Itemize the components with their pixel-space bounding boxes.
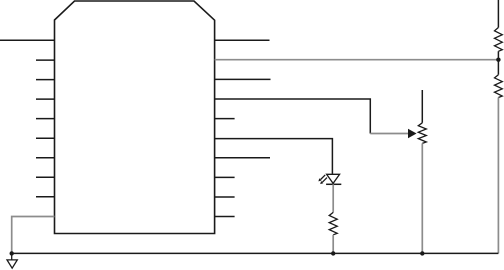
wire pin L9 to ground bbox=[12, 217, 55, 254]
resistor R2 bbox=[495, 75, 503, 98]
wire pin L4 bbox=[36, 118, 55, 120]
wire wiper horizontal bbox=[370, 133, 408, 135]
LED emission arrow 1 bbox=[321, 175, 326, 180]
LED cathode bar bbox=[326, 183, 341, 185]
wire pin R6 bbox=[215, 157, 270, 159]
wire pin L0 bbox=[0, 39, 55, 41]
wire pin L7 bbox=[36, 176, 55, 178]
wire pot to rail bbox=[421, 143, 423, 253]
wire pin L5 bbox=[36, 137, 55, 139]
wire pin R4 bbox=[215, 118, 235, 120]
resistor R3 bbox=[329, 212, 337, 234]
wire pin L1 bbox=[36, 59, 55, 61]
wiper arrowhead bbox=[408, 129, 417, 138]
wire pin R0 bbox=[215, 39, 270, 41]
wire pin L2 bbox=[36, 79, 55, 81]
wire pin R5 to LED bbox=[215, 139, 333, 174]
resistor R1 bbox=[495, 28, 503, 52]
op-amp U1 bbox=[55, 1, 215, 234]
wire node to R2 bbox=[497, 60, 499, 75]
wire pot top stub bbox=[421, 90, 423, 123]
wire pin R7 bbox=[215, 176, 235, 178]
wire R1 to node bbox=[497, 51, 499, 59]
wire LED to R3 bbox=[332, 184, 334, 212]
wire R2 to rail bbox=[497, 98, 499, 254]
wire pin L3 bbox=[36, 98, 55, 100]
wire pin R9 bbox=[215, 216, 235, 218]
wire ground rail bbox=[12, 252, 499, 254]
wire pin R2 bbox=[215, 78, 271, 80]
LED D1 bbox=[327, 174, 340, 183]
wire pin R8 bbox=[215, 196, 235, 198]
wire top lead R1 bbox=[497, 0, 499, 28]
LED emission arrow 2 bbox=[322, 178, 327, 183]
wire pin L8 bbox=[36, 196, 55, 198]
wire R3 to rail bbox=[332, 235, 334, 254]
wire pin L6 bbox=[36, 157, 55, 159]
node divider junction bbox=[496, 58, 500, 62]
wire pin R1 net to divider bbox=[215, 59, 499, 61]
potentiometer R4 bbox=[418, 123, 426, 144]
node ground junction bbox=[10, 251, 14, 255]
ground bbox=[11, 253, 13, 260]
node pot-rail junction bbox=[420, 251, 424, 255]
wire pin R3 to wiper bbox=[215, 99, 371, 134]
node R3-rail junction bbox=[331, 251, 335, 255]
